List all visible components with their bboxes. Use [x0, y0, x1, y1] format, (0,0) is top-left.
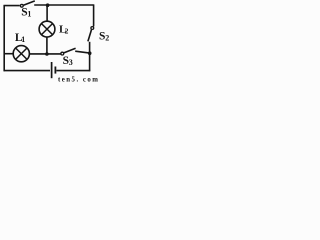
node junction right	[88, 51, 92, 55]
svg-text:1: 1	[27, 10, 31, 19]
wire middle from L1 to switch S3	[29, 53, 60, 55]
svg-text:3: 3	[69, 58, 73, 67]
switch S3 lever	[64, 48, 76, 53]
battery long plate	[51, 62, 53, 78]
wire middle right of S3 to right wire	[75, 51, 90, 53]
battery short plate	[54, 67, 56, 74]
wire L2 stem top	[46, 5, 48, 22]
wire bottom left of battery	[4, 70, 51, 72]
svg-text:2: 2	[105, 34, 109, 43]
wire right vertical lower	[89, 42, 91, 71]
switch S2 terminal	[91, 27, 94, 30]
svg-text:1: 1	[21, 35, 25, 44]
lamp L2	[39, 21, 55, 37]
wire L2 stem bottom	[46, 37, 48, 55]
switch S1 terminal	[20, 4, 23, 7]
wire bottom right of battery	[56, 70, 90, 72]
wire right vertical upper	[93, 4, 95, 26]
switch S2 lever	[88, 30, 92, 42]
node junction middle	[45, 52, 49, 56]
svg-text:ten5. com: ten5. com	[58, 76, 99, 83]
wire middle stub from left wire to lamp L1	[4, 53, 14, 55]
switch S1 lever	[23, 1, 34, 5]
wire top right of S1	[34, 4, 93, 6]
wire top left to switch S1	[4, 5, 20, 7]
switch S3 terminal	[61, 52, 64, 55]
node junction top (L2 branch)	[46, 3, 50, 7]
lamp L1	[13, 46, 29, 62]
wire left vertical	[3, 5, 5, 71]
svg-text:2: 2	[65, 26, 69, 35]
